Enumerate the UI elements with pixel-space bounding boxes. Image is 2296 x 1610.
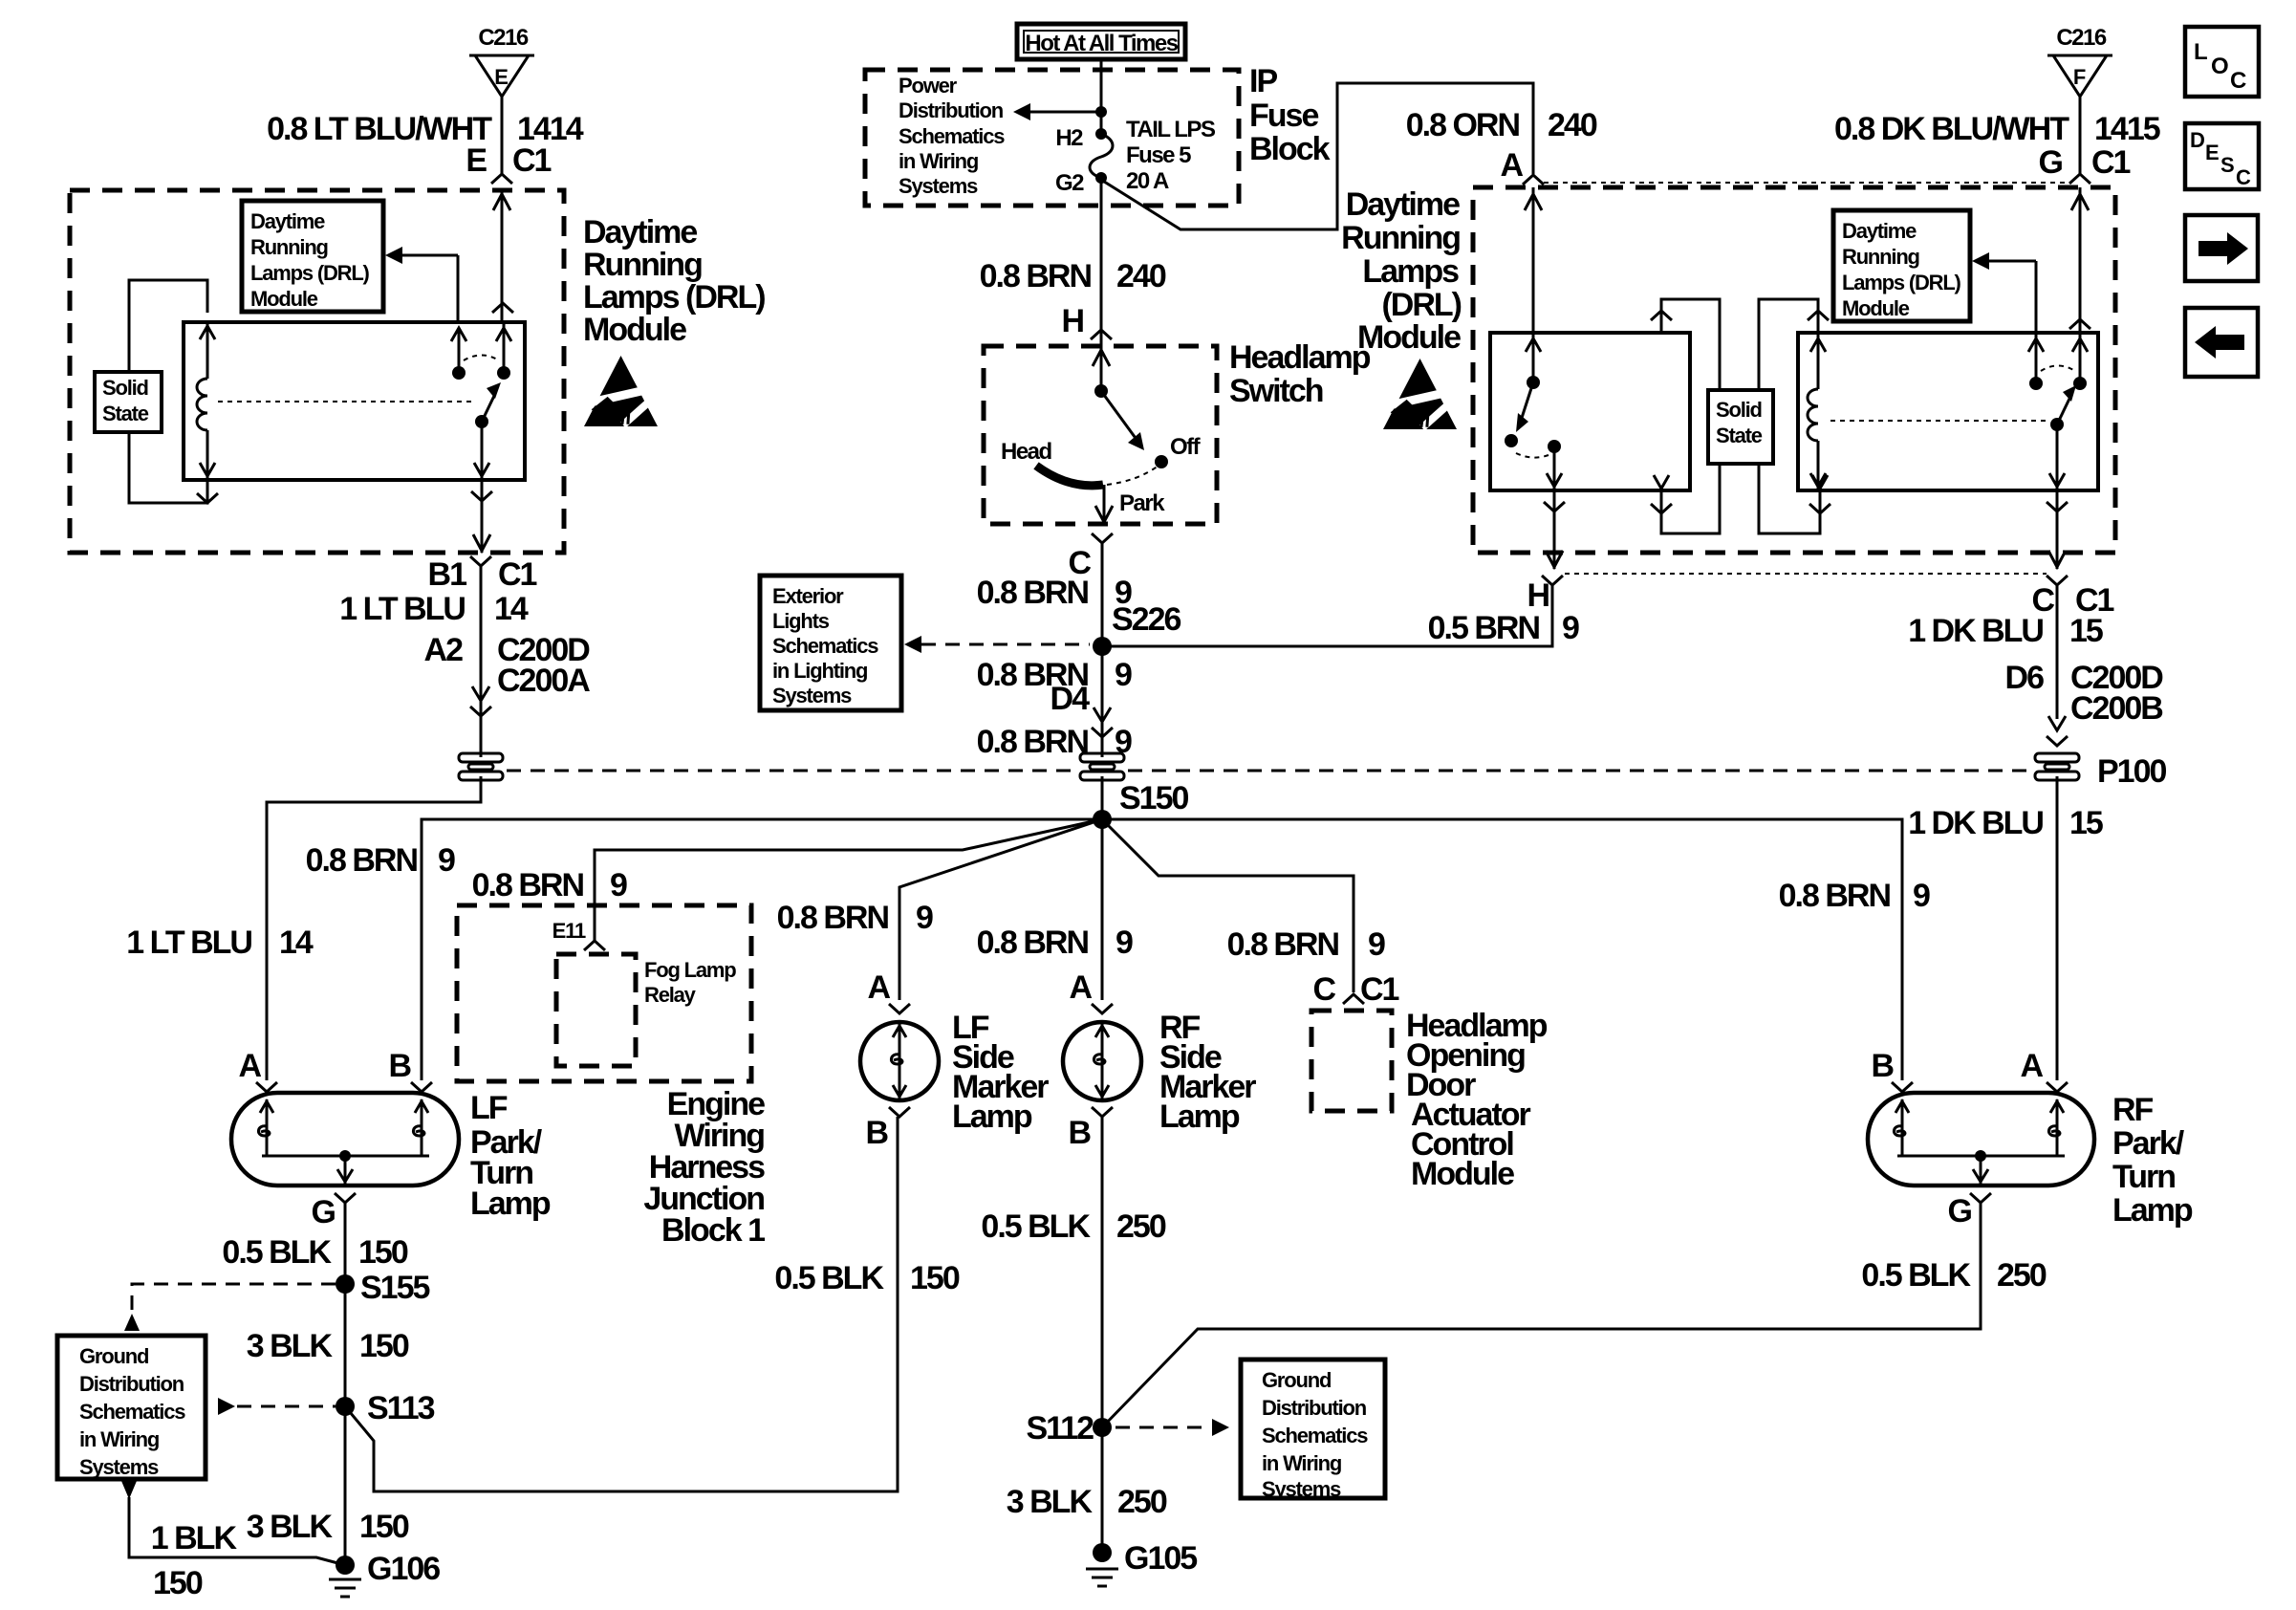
label 0.8 BRN 240 (980, 258, 1166, 294)
svg-text:Lamps (DRL): Lamps (DRL) (583, 279, 765, 315)
svg-text:1 LT BLU: 1 LT BLU (339, 591, 465, 627)
svg-text:0.8 BRN: 0.8 BRN (1779, 878, 1891, 914)
pin label E C1 (466, 142, 551, 179)
label 1 LT BLU 14 lower (126, 925, 314, 961)
connector chevron G RF (1970, 1193, 1991, 1203)
svg-text:B1: B1 (428, 556, 467, 593)
label 3 BLK 150 (S113-G106) (247, 1509, 409, 1545)
label IP Fuse Block (1249, 63, 1331, 167)
svg-text:C216: C216 (2056, 25, 2107, 51)
ground G105 (1086, 1540, 1197, 1586)
pin label G (312, 1194, 336, 1230)
inline connector P100 left (459, 753, 503, 780)
connector chevron A RF (1092, 1004, 1113, 1013)
dashed ref arrow S226 to exterior lights (904, 636, 1090, 653)
relay coil left module (197, 322, 215, 480)
dotted connector line H to C (1565, 573, 2047, 575)
svg-text:C: C (1312, 971, 1335, 1008)
junction S155 (336, 1270, 429, 1306)
svg-text:0.8 BRN: 0.8 BRN (472, 867, 584, 903)
headlamp opening door actuator dashed box (1311, 1011, 1392, 1111)
svg-text:G: G (2039, 144, 2063, 181)
svg-text:240: 240 (1116, 258, 1166, 294)
svg-text:Module: Module (1842, 296, 1910, 320)
wire top pin to switch contact (496, 322, 511, 373)
wire 240 BRN from G2 down to headlamp switch (1100, 178, 1103, 346)
svg-text:Lamps: Lamps (1362, 253, 1459, 290)
svg-text:150: 150 (910, 1260, 960, 1296)
label 1 LT BLU 14 (339, 591, 529, 627)
text Power Distribution Schematics in Wiring Systems (899, 74, 1005, 198)
svg-text:Daytime: Daytime (1346, 186, 1460, 223)
P100 dashed interconnect line (507, 770, 2030, 772)
svg-text:D: D (2190, 128, 2204, 152)
svg-text:Fog Lamp: Fog Lamp (644, 958, 736, 982)
svg-text:Daytime: Daytime (583, 214, 697, 250)
svg-text:0.8 ORN: 0.8 ORN (1406, 107, 1520, 143)
DRL module right dashed box (1473, 187, 2115, 553)
wire G pin to switch contact (2072, 333, 2088, 383)
label 0.5 BLK 150 (LF side marker) (774, 1260, 959, 1296)
svg-text:B: B (388, 1048, 411, 1084)
pin label B1 C1 (428, 556, 537, 593)
svg-text:S155: S155 (360, 1270, 429, 1306)
wire P100 to S150 (1101, 776, 1104, 819)
svg-text:0.8 BRN: 0.8 BRN (977, 575, 1089, 611)
switch Head contact arc (1001, 439, 1103, 486)
dashed ref S112 to ground box right (1116, 1419, 1229, 1436)
RF side marker lamp (1063, 1022, 1141, 1100)
engine wiring harness junction block dashed box (457, 905, 751, 1081)
wire from Hot At All Times (1100, 59, 1103, 134)
svg-text:150: 150 (359, 1328, 409, 1364)
svg-text:3 BLK: 3 BLK (247, 1509, 334, 1545)
svg-text:Systems: Systems (899, 174, 978, 198)
svg-text:S112: S112 (1026, 1410, 1094, 1447)
svg-text:Running: Running (250, 235, 328, 259)
svg-text:E: E (466, 142, 487, 179)
svg-text:Relay: Relay (644, 983, 697, 1007)
headlamp switch dashed box (984, 346, 1217, 524)
svg-text:3 BLK: 3 BLK (1007, 1484, 1094, 1520)
svg-text:C: C (2230, 68, 2246, 94)
svg-text:Module: Module (250, 287, 318, 311)
label P100 (2097, 753, 2166, 790)
fuse TAIL LPS Fuse 5 20A (1090, 128, 1113, 184)
fog lamp relay dashed box (556, 954, 636, 1066)
connector chevron B (LF side marker) (889, 1107, 910, 1117)
label 0.5 BLK 250 (RF park) (1861, 1257, 2046, 1294)
wire bottom hook left (1651, 464, 1720, 533)
svg-text:250: 250 (1997, 1257, 2047, 1294)
svg-text:C200B: C200B (2070, 690, 2163, 727)
Hot At All Times box (1017, 24, 1185, 59)
svg-text:Distribution: Distribution (79, 1372, 184, 1396)
junction S112 (1026, 1410, 1112, 1447)
svg-text:C1: C1 (512, 142, 552, 179)
IP fuse block dashed box (865, 70, 1239, 206)
svg-text:A: A (867, 969, 890, 1006)
svg-text:Headlamp: Headlamp (1229, 339, 1371, 376)
svg-text:Running: Running (583, 247, 702, 283)
wire 1 LT BLU to LF park lamp A (267, 776, 481, 1080)
svg-text:0.5 BLK: 0.5 BLK (981, 1208, 1091, 1245)
svg-text:H: H (1527, 577, 1549, 614)
label 0.8 BRN 9 (E11 wire) (472, 867, 627, 903)
svg-text:1 BLK: 1 BLK (151, 1520, 238, 1556)
connector chevron A right DRL (1523, 175, 1544, 185)
label 1 DK BLU 15 lower (1908, 805, 2103, 841)
switch wiper (1093, 346, 1144, 450)
RF park/turn lamp (1868, 1093, 2094, 1186)
svg-text:Module: Module (1357, 319, 1461, 356)
dotted connector line A to G (1544, 182, 2069, 184)
pin label A (LF side marker) (867, 969, 890, 1006)
svg-text:D4: D4 (1051, 681, 1091, 717)
connector chevron E/C1 (491, 174, 512, 184)
label LF Side Marker Lamp (952, 1010, 1049, 1135)
svg-text:Daytime: Daytime (250, 209, 325, 233)
svg-text:Solid: Solid (102, 376, 148, 400)
arrow into left DRL label box (385, 247, 458, 322)
svg-text:15: 15 (2069, 613, 2103, 649)
wire S150 to LF side marker (899, 819, 1102, 1000)
wire 9 BRN headlamp switch to S226 (1101, 543, 1104, 646)
wire S150 to RF side marker (1101, 819, 1104, 1000)
junction S113 (336, 1390, 435, 1426)
svg-text:LF: LF (470, 1090, 508, 1126)
connector chevron A (889, 1004, 910, 1013)
label D6 C200D C200B (2005, 660, 2164, 727)
switch right module right box (2028, 333, 2087, 490)
label 3 BLK 150 (S155-S113) (247, 1328, 409, 1364)
svg-text:S150: S150 (1119, 780, 1188, 816)
svg-text:1 LT BLU: 1 LT BLU (126, 925, 251, 961)
svg-text:Running: Running (1341, 220, 1460, 256)
svg-text:250: 250 (1116, 1208, 1166, 1245)
wire 1415 from C216-F (2079, 97, 2082, 174)
svg-text:0.8 DK BLU/WHT: 0.8 DK BLU/WHT (1834, 111, 2069, 147)
connector chevron H (1091, 330, 1112, 339)
svg-text:C200A: C200A (497, 663, 590, 699)
wire S112 to RF park turn G (1102, 1203, 1981, 1427)
svg-text:Block 1: Block 1 (661, 1212, 765, 1249)
ESD symbol left (584, 356, 658, 426)
pin label H (headlamp switch) (1061, 303, 1083, 339)
label 0.8 DK BLU/WHT 1415 (1834, 111, 2160, 147)
wire E pin into module (492, 190, 513, 322)
svg-text:0.5 BLK: 0.5 BLK (1861, 1257, 1971, 1294)
wire S113 to LF side marker B (345, 1117, 898, 1491)
wire top hook right (coil box to solid state) (1759, 299, 1829, 390)
svg-text:C1: C1 (1360, 971, 1399, 1008)
label Fog Lamp Relay (644, 958, 736, 1007)
label S150 (1119, 780, 1188, 816)
arrow to power distribution (1013, 103, 1107, 120)
DRL module right label box (1833, 210, 1970, 321)
connector chevron C/C1 right module (2047, 576, 2068, 585)
svg-text:Switch: Switch (1229, 373, 1323, 409)
svg-text:Running: Running (1842, 245, 1919, 269)
label LF Park/ Turn Lamp (470, 1090, 551, 1222)
svg-text:P100: P100 (2097, 753, 2166, 790)
svg-text:Schematics: Schematics (772, 634, 878, 658)
svg-text:S226: S226 (1112, 601, 1180, 638)
label 0.5 BLK 150 (222, 1234, 407, 1271)
label Daytime Running Lamps (DRL) Module right side (1341, 186, 1462, 356)
label Daytime Running Lamps (DRL) Module left side (583, 214, 765, 348)
ground G106 (329, 1551, 440, 1597)
svg-text:S113: S113 (367, 1390, 435, 1426)
svg-text:9: 9 (610, 867, 627, 903)
label TAIL LPS Fuse 5 20 A (1126, 117, 1216, 194)
label Headlamp Opening Door Actuator Control Module (1406, 1008, 1548, 1192)
inline connector P100 middle (1080, 753, 1124, 780)
legend LOC box (2185, 27, 2259, 97)
svg-text:(DRL): (DRL) (1381, 287, 1461, 323)
label RF Side Marker Lamp (1159, 1010, 1256, 1135)
svg-text:Systems: Systems (772, 684, 852, 707)
svg-text:Exterior: Exterior (772, 584, 844, 608)
svg-text:A: A (1069, 969, 1092, 1006)
wire switch output C (1092, 485, 1113, 543)
connector D4 chevrons (1092, 707, 1113, 737)
label E11 (552, 919, 586, 943)
label 0.8 BRN 9 D4 (977, 657, 1132, 717)
svg-text:in Wiring: in Wiring (1262, 1451, 1341, 1475)
svg-text:Ground: Ground (1262, 1368, 1331, 1392)
svg-text:S: S (2220, 153, 2234, 177)
svg-text:Schematics: Schematics (1262, 1424, 1368, 1447)
svg-text:Systems: Systems (1262, 1477, 1341, 1501)
svg-text:15: 15 (2069, 805, 2103, 841)
svg-text:240: 240 (1548, 107, 1597, 143)
svg-text:A: A (1500, 147, 1523, 184)
svg-text:C: C (2236, 165, 2251, 189)
svg-text:0.5 BLK: 0.5 BLK (222, 1234, 332, 1271)
svg-text:State: State (1716, 424, 1763, 447)
connector chevron H right DRL (1542, 576, 1563, 585)
svg-text:1415: 1415 (2094, 111, 2160, 147)
label 0.8 BRN 9 (below D4) (977, 724, 1132, 760)
svg-text:Distribution: Distribution (899, 98, 1004, 122)
wire S150 to door actuator module (1102, 819, 1354, 992)
svg-text:Lamp: Lamp (1159, 1099, 1240, 1135)
svg-text:O: O (2211, 54, 2228, 79)
connector chevrons A B (256, 1082, 432, 1092)
svg-text:1 DK BLU: 1 DK BLU (1908, 805, 2043, 841)
svg-text:Daytime: Daytime (1842, 219, 1917, 243)
right module coil relay box (1798, 333, 2098, 490)
label 0.8 LT BLU/WHT 1414 (267, 111, 584, 147)
LF park/turn lamp (231, 1093, 459, 1186)
wire G to S155 S113 G106 (344, 1203, 347, 1565)
dashed link coil to switch (218, 401, 476, 402)
label RF Park/ Turn Lamp (2112, 1092, 2193, 1229)
label 3 BLK 250 (1007, 1484, 1167, 1520)
wire coil loop via solid state (129, 280, 218, 503)
solid state box left (95, 372, 162, 432)
exterior lights box (760, 576, 901, 710)
connector chevron C door actuator (1343, 994, 1364, 1004)
svg-text:Head: Head (1001, 439, 1052, 465)
svg-text:B: B (865, 1115, 888, 1151)
connector chevron E11 (584, 941, 605, 950)
label Engine Wiring Harness Junction Block 1 (643, 1086, 765, 1249)
wire S150 main horizontal to LF park B and RF park B (422, 819, 1902, 1080)
label 0.8 ORN 240 (1406, 107, 1597, 143)
pin labels B A (RF park) (1871, 1048, 2043, 1084)
svg-text:RF: RF (2112, 1092, 2154, 1128)
ground distribution box right (1241, 1360, 1385, 1501)
DRL module left dashed box (70, 190, 564, 553)
svg-text:Power: Power (899, 74, 958, 98)
svg-text:State: State (102, 402, 149, 425)
wire S226 down to D4 (1101, 646, 1104, 757)
pin label C C1 (2031, 582, 2113, 619)
svg-text:A2: A2 (424, 632, 464, 668)
svg-text:0.5 BRN: 0.5 BRN (1428, 610, 1540, 646)
svg-text:Solid: Solid (1716, 398, 1762, 422)
svg-text:G2: G2 (1055, 170, 1084, 196)
wire G pin into module (2069, 187, 2090, 333)
dashed ref from S155 to ground box (124, 1284, 336, 1331)
pin label G C1 (2039, 144, 2131, 181)
svg-text:250: 250 (1117, 1484, 1167, 1520)
solid state box right (1708, 390, 1773, 464)
svg-text:0.5 BLK: 0.5 BLK (774, 1260, 884, 1296)
wire top hook left (switch box to solid state) (1651, 299, 1720, 390)
connector C200 chevrons left (470, 686, 491, 716)
pin label A (right DRL) (1500, 147, 1523, 184)
svg-text:0.8 BRN: 0.8 BRN (1227, 926, 1339, 963)
label 0.5 BRN 9 (1428, 610, 1579, 646)
svg-text:0.8 BRN: 0.8 BRN (977, 724, 1089, 760)
pin labels A B (LF park) (238, 1048, 411, 1084)
wire 1 BLK from ground box (121, 1481, 345, 1565)
connector chevron G/C1 (2069, 174, 2090, 184)
inline connector P100 right (2035, 753, 2079, 780)
label Headlamp Switch (1229, 339, 1371, 409)
svg-text:IP: IP (1249, 63, 1277, 99)
svg-text:L: L (2194, 39, 2207, 65)
wire C out of coil box (2047, 490, 2068, 569)
dashed link coil to switch right (1830, 420, 2046, 422)
connector C216 E triangle (469, 25, 534, 97)
pin label B (865, 1115, 888, 1151)
label 0.5 BLK 250 (981, 1208, 1165, 1245)
connector chevrons B A (1892, 1082, 2068, 1092)
svg-text:0.8 BRN: 0.8 BRN (306, 842, 418, 879)
svg-text:Distribution: Distribution (1262, 1396, 1367, 1420)
svg-text:G106: G106 (367, 1551, 440, 1587)
svg-text:Park: Park (1119, 490, 1165, 516)
wire A pin into module (1525, 187, 1542, 333)
svg-text:9: 9 (916, 900, 933, 936)
svg-text:H: H (1061, 303, 1083, 339)
label 0.8 BRN 9 (above S226) (977, 575, 1132, 611)
ESD symbol right (1383, 359, 1457, 429)
pin label C C1 (door actuator) (1312, 971, 1398, 1008)
svg-text:F: F (2073, 65, 2086, 89)
DRL module left label box (242, 201, 383, 312)
svg-text:Off: Off (1170, 434, 1202, 460)
switch Park dashed arc (1107, 466, 1165, 516)
svg-text:9: 9 (1913, 878, 1930, 914)
svg-text:Ground: Ground (79, 1344, 148, 1368)
wire H out of switch box (1544, 490, 1565, 569)
svg-text:Module: Module (583, 312, 686, 348)
svg-text:Schematics: Schematics (79, 1400, 185, 1424)
svg-text:150: 150 (153, 1565, 203, 1601)
label A2 C200D C200A (424, 632, 591, 699)
legend right-arrow box (2185, 215, 2258, 281)
label 0.8 BRN 9 (RF park B wire) (1779, 878, 1930, 914)
svg-text:D6: D6 (2005, 660, 2045, 696)
pin label B RF (1068, 1115, 1091, 1151)
svg-text:G: G (1948, 1193, 1972, 1229)
junction S150 (1093, 810, 1112, 829)
svg-text:A: A (238, 1048, 261, 1084)
wire 15 DK BLU to RF park lamp A (2056, 776, 2059, 1080)
wire RF side marker B to S112 to G105 (1101, 1117, 1104, 1553)
svg-text:9: 9 (1115, 657, 1132, 693)
svg-text:Lamp: Lamp (952, 1099, 1032, 1135)
wire 240 ORN from G2 to right DRL A pin (1101, 83, 1533, 229)
svg-text:E: E (2205, 141, 2219, 164)
wire 15 DK BLU down (2056, 585, 2059, 719)
wire 14 LT BLU down (480, 566, 483, 757)
svg-text:Lamp: Lamp (470, 1186, 551, 1222)
svg-text:Lamps (DRL): Lamps (DRL) (250, 261, 370, 285)
svg-text:C1: C1 (2091, 144, 2131, 181)
svg-text:Fuse: Fuse (1249, 98, 1318, 134)
svg-text:14: 14 (279, 925, 314, 961)
pin label A (RF side marker) (1069, 969, 1092, 1006)
connector chevron B RF (1092, 1107, 1113, 1117)
svg-text:in Wiring: in Wiring (79, 1427, 159, 1451)
svg-text:B: B (1871, 1048, 1894, 1084)
label 1 BLK 150 (151, 1520, 238, 1601)
svg-text:0.8 BRN: 0.8 BRN (977, 925, 1089, 961)
svg-text:150: 150 (358, 1234, 408, 1271)
dashed ref from ground box to S113 (218, 1398, 336, 1415)
svg-text:Lights: Lights (772, 609, 830, 633)
svg-text:Park/: Park/ (2112, 1125, 2185, 1162)
svg-text:Lamps (DRL): Lamps (DRL) (1842, 271, 1961, 294)
pin label G2 (1055, 170, 1084, 196)
svg-text:Turn: Turn (2112, 1159, 2175, 1195)
LF side marker lamp (860, 1022, 939, 1100)
svg-text:in Lighting: in Lighting (772, 659, 867, 683)
svg-text:1 DK BLU: 1 DK BLU (1908, 613, 2043, 649)
svg-text:E: E (494, 65, 508, 89)
wire 0.5 BRN S226 to right DRL H pin (1102, 585, 1552, 646)
label H pin right DRL (1527, 577, 1549, 614)
svg-text:Systems: Systems (79, 1455, 159, 1479)
arrow into right DRL label box (1972, 252, 2036, 333)
svg-text:9: 9 (438, 842, 455, 879)
ground distribution box left (57, 1336, 206, 1479)
connector C200 chevrons right (2047, 716, 2068, 746)
wire S150 to E11 fog lamp feed (595, 819, 1102, 941)
label 1 DK BLU 15 (1908, 613, 2103, 649)
connector chevron B1/C1 (470, 556, 491, 566)
svg-text:Lamp: Lamp (2112, 1192, 2193, 1229)
junction S226 (1093, 601, 1180, 656)
pin label H2 (1055, 125, 1083, 151)
wire label-arrow leg into switch (451, 328, 466, 373)
